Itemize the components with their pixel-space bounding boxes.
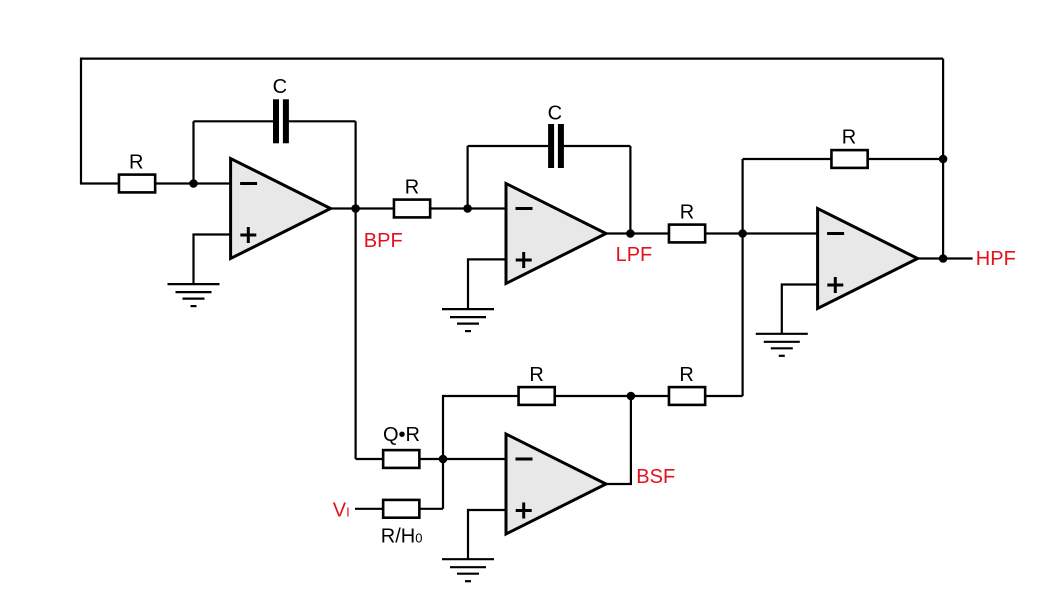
- svg-text:R: R: [842, 126, 856, 148]
- ground GND1 (U1): [168, 284, 220, 306]
- svg-text:R: R: [405, 177, 419, 199]
- wire node C riser to feedback R: [741, 159, 743, 234]
- svg-text:Q•R: Q•R: [383, 424, 420, 446]
- svg-text:LPF: LPF: [616, 244, 653, 266]
- wire U2 output rail to U3: [606, 232, 818, 234]
- op-amp U1: [231, 159, 331, 259]
- svg-text:VI: VI: [333, 500, 350, 522]
- wire U4 non-inverting input to ground: [468, 510, 506, 559]
- op-amp U3: [818, 209, 918, 309]
- node C junction dot: [738, 229, 747, 238]
- node B junction dot: [463, 204, 472, 213]
- wire node C drop to BSF rail: [741, 234, 743, 397]
- wire U1 input rail: [80, 182, 231, 184]
- wire node B riser to C2: [467, 146, 469, 209]
- node BPF junction dot: [351, 204, 360, 213]
- wire top feedback rail from HPF to U1 input: [81, 59, 943, 184]
- node E junction dot: [627, 392, 636, 401]
- wire U3 output: [918, 257, 944, 259]
- wire right feedback drop: [942, 59, 944, 159]
- wire HPF stub: [943, 257, 973, 259]
- wire BPF riser to C1: [355, 121, 357, 208]
- svg-text:R: R: [129, 151, 143, 173]
- node LPF junction dot: [626, 229, 635, 238]
- wire Vi input lead: [355, 508, 443, 510]
- ground GND2 (U2): [442, 309, 494, 331]
- resistor R5: [519, 387, 555, 405]
- resistor R1: [119, 175, 155, 193]
- op-amp U2: [506, 184, 606, 284]
- wire BSF output and riser to node E: [606, 396, 631, 484]
- resistor R6: [669, 387, 705, 405]
- wire node F drop to R/H0: [442, 459, 444, 509]
- svg-text:R: R: [529, 364, 543, 386]
- wire C1 right lead: [288, 120, 355, 122]
- node F junction dot: [439, 455, 448, 464]
- wire C2 right lead: [563, 145, 630, 147]
- svg-text:C: C: [548, 103, 562, 125]
- svg-text:BSF: BSF: [636, 466, 675, 488]
- resistor R3: [669, 225, 705, 243]
- wire BPF drop to Q.R: [355, 209, 357, 460]
- svg-text:R: R: [680, 202, 694, 224]
- node HPF junction dot: [939, 254, 948, 263]
- op-amp U4: [506, 434, 606, 534]
- wire U3 feedback rail: [743, 158, 944, 160]
- wire U1 non-inverting input to ground: [194, 235, 231, 285]
- node A junction dot: [189, 179, 198, 188]
- capacitor C2: [548, 124, 564, 168]
- wire LPF riser from C2: [629, 146, 631, 234]
- wire node A riser to C1: [192, 121, 194, 183]
- wire U2 non-inverting input to ground: [468, 259, 506, 309]
- wire C1 left lead: [194, 120, 274, 122]
- capacitor C1: [273, 99, 289, 143]
- wire C2 left lead: [468, 145, 548, 147]
- wire U3 non-inverting input to ground: [782, 285, 818, 334]
- wire BSF feedback rail and elbow to node F: [443, 396, 743, 459]
- ground GND3 (U3): [756, 334, 808, 356]
- ground GND4 (U4): [442, 559, 494, 581]
- node D junction dot: [939, 155, 948, 164]
- svg-text:HPF: HPF: [976, 248, 1016, 270]
- svg-text:BPF: BPF: [364, 230, 403, 252]
- resistor R2: [394, 200, 430, 218]
- wire U1 output rail to U2: [331, 207, 506, 209]
- svg-text:R/H0: R/H0: [381, 526, 423, 548]
- svg-text:R: R: [679, 364, 693, 386]
- resistor R4: [831, 150, 867, 168]
- svg-text:C: C: [273, 76, 287, 98]
- wire Q.R rail to U4 inverting input: [356, 458, 506, 460]
- resistor RH0: [383, 500, 419, 518]
- wire node D drop to HPF output: [942, 159, 944, 259]
- resistor QR: [383, 450, 419, 468]
